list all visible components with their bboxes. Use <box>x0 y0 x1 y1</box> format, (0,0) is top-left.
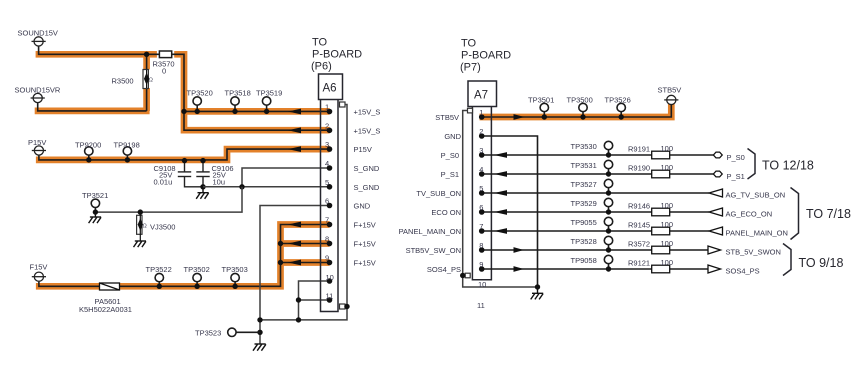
terminal SOUND15V <box>32 37 46 46</box>
connector A6 shell wire <box>345 105 347 307</box>
wire pin11 <box>299 299 330 301</box>
svg-text:8: 8 <box>325 235 329 244</box>
svg-text:5: 5 <box>325 178 329 187</box>
junction node pin11/gnd <box>296 297 301 302</box>
svg-text:0.01u: 0.01u <box>154 178 173 187</box>
wire P_S1 row4 <box>482 173 714 175</box>
wire SOUND15VR black core <box>38 103 147 111</box>
svg-text:(P7): (P7) <box>460 62 481 74</box>
test point TP9055 row7 <box>604 217 612 225</box>
svg-text:4: 4 <box>479 165 483 174</box>
connector A7 shell bracket bottom <box>465 273 470 278</box>
brace TO 12/18 <box>748 149 756 180</box>
svg-text:TP9200: TP9200 <box>75 141 101 150</box>
connector A7 body <box>472 107 491 280</box>
svg-text:TP9058: TP9058 <box>571 256 597 265</box>
test point TP9058 row9 <box>604 255 612 263</box>
wire TP3521/VJ3500 to S_GND <box>95 187 242 212</box>
svg-text:10: 10 <box>478 280 486 289</box>
wire GND pin6 <box>260 206 330 345</box>
svg-text:AG_ECO_ON: AG_ECO_ON <box>726 210 773 219</box>
wire STB_5V_SWON row8 <box>482 249 708 251</box>
input port AG_ECO_ON <box>709 208 723 216</box>
svg-text:P_S1: P_S1 <box>727 172 745 181</box>
svg-text:TP9055: TP9055 <box>571 218 597 227</box>
svg-text:8: 8 <box>479 241 483 250</box>
wire STB5V black core <box>482 105 672 118</box>
svg-text:10: 10 <box>326 273 334 282</box>
output port SOS4_PS <box>708 265 721 273</box>
output port P_S0 <box>713 152 722 158</box>
ground (A7 GND) <box>531 287 544 299</box>
resistor R9191 row3 <box>652 151 670 159</box>
net SOUND15VR orange highlight <box>35 108 150 115</box>
svg-text:A6: A6 <box>323 83 337 95</box>
resistor R9146 row6 <box>652 208 670 216</box>
junction node gnd rail left <box>257 317 262 322</box>
svg-text:TP3531: TP3531 <box>571 161 597 170</box>
svg-text:TP3500: TP3500 <box>567 96 593 105</box>
test point TP3520 <box>193 97 201 105</box>
test point TP9198 <box>123 147 131 155</box>
resistor R3570 <box>159 51 171 58</box>
test point TP3501 <box>540 103 548 111</box>
A6 pin labels <box>354 108 381 268</box>
wire R3500 leads <box>146 54 148 111</box>
svg-text:K5H5022A0031: K5H5022A0031 <box>79 305 132 314</box>
svg-text:1: 1 <box>479 108 483 117</box>
terminal STB5V <box>664 95 678 104</box>
svg-text:AG_TV_SUB_ON: AG_TV_SUB_ON <box>726 191 786 200</box>
svg-text:STB_5V_SWON: STB_5V_SWON <box>726 248 781 257</box>
junction node SOUND15V/R3500 <box>144 52 149 57</box>
test point TP3527 row5 <box>604 179 612 187</box>
junction node F+15V pin9 branch <box>278 260 283 265</box>
connector A6 body <box>321 100 339 312</box>
ground (VJ3500) <box>134 241 147 247</box>
svg-text:TP9198: TP9198 <box>114 141 140 150</box>
ground (A6 GND net) <box>253 344 266 351</box>
svg-text:6: 6 <box>479 203 483 212</box>
svg-text:F+15V: F+15V <box>354 221 376 230</box>
wire S_GND pin4 <box>242 168 330 187</box>
svg-text:GND: GND <box>444 132 461 141</box>
svg-text:A7: A7 <box>474 90 488 102</box>
junction node TP3523 <box>257 330 262 335</box>
svg-text:2: 2 <box>479 127 483 136</box>
svg-text:Ω: Ω <box>143 223 147 229</box>
input port PANEL_MAIN_ON <box>709 227 723 235</box>
svg-text:TP3502: TP3502 <box>184 265 210 274</box>
test point TP3523 <box>228 328 236 336</box>
wire SOUND15V black core <box>39 46 330 130</box>
wire GND shell loop <box>260 307 347 320</box>
svg-text:0: 0 <box>162 67 166 76</box>
terminal F15V <box>32 272 46 281</box>
test point TP3528 row8 <box>604 236 612 244</box>
junction node S_GND <box>239 184 244 189</box>
svg-text:TP3529: TP3529 <box>571 199 597 208</box>
wire F15V black core <box>39 225 330 287</box>
net F15V orange highlight <box>36 225 330 287</box>
svg-text:7: 7 <box>479 222 483 231</box>
svg-text:3: 3 <box>479 146 483 155</box>
svg-text:TO: TO <box>461 38 477 50</box>
connector A7 box <box>468 81 497 107</box>
capacitor C9106 <box>196 161 209 187</box>
svg-text:TP3523: TP3523 <box>195 329 221 338</box>
wire GND pin2 <box>482 136 538 287</box>
svg-text:R9190: R9190 <box>628 164 650 173</box>
net P15V orange highlight <box>36 149 330 160</box>
svg-text:P_S0: P_S0 <box>441 151 459 160</box>
svg-text:P-BOARD: P-BOARD <box>312 49 362 61</box>
junction node branch pin1 <box>181 109 186 114</box>
junction node F+15V pin8 branch <box>278 241 283 246</box>
junction node GND/shell <box>535 284 540 289</box>
svg-text:Ω: Ω <box>149 78 153 84</box>
svg-text:TV_SUB_ON: TV_SUB_ON <box>416 189 461 198</box>
capacitor C9108 <box>178 161 203 187</box>
test point TP9200 <box>85 147 93 155</box>
svg-text:100: 100 <box>661 144 674 153</box>
resistor R3572 row8 <box>652 246 670 254</box>
svg-text:100: 100 <box>661 220 674 229</box>
svg-text:P_S1: P_S1 <box>441 170 459 179</box>
test point TP3531 row4 <box>604 160 612 168</box>
junction node gnd rail <box>296 317 301 322</box>
net STB5V orange highlight <box>480 103 672 117</box>
connector A6 box <box>319 74 343 100</box>
svg-text:11: 11 <box>326 292 334 301</box>
svg-text:9: 9 <box>479 260 483 269</box>
svg-text:STB5V: STB5V <box>435 113 459 122</box>
wire AG_ECO_ON row6 <box>482 211 709 213</box>
svg-text:TP3520: TP3520 <box>187 89 213 98</box>
svg-text:100: 100 <box>661 201 674 210</box>
svg-text:P15V: P15V <box>28 138 46 147</box>
svg-text:TP3528: TP3528 <box>571 237 597 246</box>
svg-text:4: 4 <box>325 159 329 168</box>
svg-text:F+15V: F+15V <box>354 259 376 268</box>
svg-text:10u: 10u <box>213 178 226 187</box>
test point TP3500 <box>579 103 587 111</box>
svg-text:TO 12/18: TO 12/18 <box>762 159 814 173</box>
svg-text:S_GND: S_GND <box>354 183 380 192</box>
connector A7 shell bracket top <box>468 108 473 113</box>
svg-text:TP3527: TP3527 <box>571 180 597 189</box>
svg-text:VJ3500: VJ3500 <box>150 223 175 232</box>
test point TP3521 <box>91 199 99 207</box>
ground (capacitors) <box>196 187 209 199</box>
svg-text:TP3526: TP3526 <box>605 96 631 105</box>
svg-text:TP3503: TP3503 <box>222 265 248 274</box>
varistor VJ3500 <box>138 209 143 214</box>
svg-text:100: 100 <box>661 163 674 172</box>
resistor R9121 row9 <box>652 265 670 273</box>
brace TO 7/18 <box>791 188 799 240</box>
svg-text:SOS4_PS: SOS4_PS <box>427 265 461 274</box>
svg-text:PANEL_MAIN_ON: PANEL_MAIN_ON <box>726 229 788 238</box>
svg-text:TP3521: TP3521 <box>82 191 108 200</box>
svg-text:2: 2 <box>325 122 329 131</box>
test point TP3503 <box>231 273 239 281</box>
svg-text:R3500: R3500 <box>112 77 134 86</box>
svg-text:ECO ON: ECO ON <box>431 208 461 217</box>
connector A6 shell bracket bottom <box>340 304 346 309</box>
svg-text:STB5V: STB5V <box>658 86 682 95</box>
svg-text:TO 9/18: TO 9/18 <box>799 256 844 270</box>
input port AG_TV_SUB_ON <box>709 189 723 197</box>
test point TP3526 <box>617 103 625 111</box>
connector A7 shell wire <box>463 111 538 288</box>
svg-text:7: 7 <box>325 216 329 225</box>
svg-text:R9191: R9191 <box>628 145 650 154</box>
svg-text:6: 6 <box>325 197 329 206</box>
svg-text:100: 100 <box>661 258 674 267</box>
svg-text:R9146: R9146 <box>628 202 650 211</box>
wire AG_TV_SUB_ON row5 <box>482 192 709 194</box>
svg-text:R9145: R9145 <box>628 221 650 230</box>
test point TP3522 <box>155 273 163 281</box>
A7 arrowheads <box>494 114 525 272</box>
svg-text:P15V: P15V <box>354 145 372 154</box>
wire pin10 <box>299 281 330 320</box>
test point TP3519 <box>262 97 270 105</box>
svg-text:1: 1 <box>325 103 329 112</box>
svg-text:F15V: F15V <box>30 263 48 272</box>
svg-text:TP3501: TP3501 <box>528 96 554 105</box>
svg-text:TO 7/18: TO 7/18 <box>806 207 851 221</box>
wire P_S0 row3 <box>482 154 714 156</box>
connector A6 shell bracket top <box>340 102 346 107</box>
svg-text:SOUND15V: SOUND15V <box>18 29 58 38</box>
wire SOS4_PS row9 <box>482 268 708 270</box>
svg-text:F+15V: F+15V <box>354 240 376 249</box>
svg-text:5: 5 <box>479 184 483 193</box>
wire PANEL_MAIN_ON row7 <box>482 230 709 232</box>
test point TP3529 row6 <box>604 198 612 206</box>
terminal SOUND15VR <box>31 93 45 102</box>
svg-text:TP3530: TP3530 <box>571 142 597 151</box>
A7 pin numbers <box>477 108 486 310</box>
svg-text:+15V_S: +15V_S <box>354 108 381 117</box>
A7 pin dots <box>479 114 485 272</box>
svg-text:PANEL_MAIN_ON: PANEL_MAIN_ON <box>399 227 461 236</box>
output port STB_5V_SWON <box>708 246 721 254</box>
brace TO 9/18 <box>783 244 791 276</box>
terminal P15V <box>32 146 46 155</box>
wire P15V black core <box>39 149 330 160</box>
wire S_GND pin5 <box>203 186 330 188</box>
svg-text:P_S0: P_S0 <box>727 153 745 162</box>
resistor R9190 row4 <box>652 170 670 178</box>
svg-text:11: 11 <box>477 301 485 310</box>
svg-text:GND: GND <box>354 202 371 211</box>
A6 arrowheads (into connector) <box>288 109 301 266</box>
svg-text:TP3518: TP3518 <box>225 89 251 98</box>
svg-text:TO: TO <box>312 37 328 49</box>
svg-text:SOS4_PS: SOS4_PS <box>726 267 760 276</box>
svg-text:TP3519: TP3519 <box>256 89 282 98</box>
resistor R3500 (fusible) <box>143 70 148 89</box>
ground (TP3521) <box>89 212 102 223</box>
svg-text:3: 3 <box>325 140 329 149</box>
svg-text:S_GND: S_GND <box>354 164 380 173</box>
svg-text:(P6): (P6) <box>311 61 332 73</box>
fuse PA5601 <box>100 283 120 290</box>
resistor R9145 row7 <box>652 227 670 235</box>
output port P_S1 <box>713 171 722 177</box>
junction node caps/S_GND <box>200 184 205 189</box>
svg-text:R3572: R3572 <box>628 240 650 249</box>
svg-text:9: 9 <box>325 254 329 263</box>
test point TP3518 <box>231 97 239 105</box>
test point TP3530 row3 <box>604 141 612 149</box>
svg-text:TP3522: TP3522 <box>146 265 172 274</box>
net SOUND15V orange highlight <box>36 51 330 130</box>
A6 pin dots and numbers <box>327 109 333 303</box>
svg-text:P-BOARD: P-BOARD <box>461 50 511 62</box>
svg-text:R9121: R9121 <box>628 259 650 268</box>
test point TP3502 <box>193 273 201 281</box>
svg-text:SOUND15VR: SOUND15VR <box>15 86 61 95</box>
svg-text:100: 100 <box>661 239 674 248</box>
A7 left pin labels <box>399 113 462 274</box>
svg-text:+15V_S: +15V_S <box>354 127 381 136</box>
svg-text:STB5V_SW_ON: STB5V_SW_ON <box>406 246 461 255</box>
